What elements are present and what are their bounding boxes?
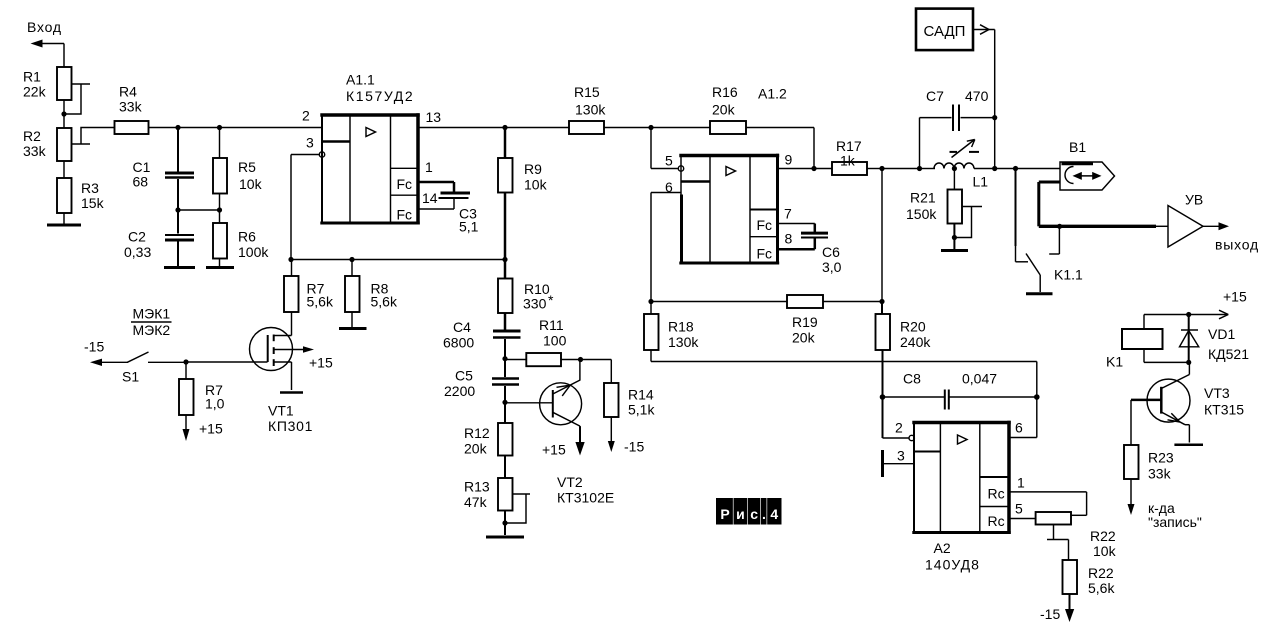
svg-text:20k: 20k — [792, 330, 816, 346]
wire pin 13 output line — [418, 127, 569, 129]
pin 2 label — [302, 108, 310, 124]
pin 7 wire to C6 — [778, 206, 815, 234]
svg-text:+15: +15 — [542, 442, 566, 458]
ground under VT1 — [280, 391, 303, 394]
transistor VT1 КП301 — [250, 312, 315, 434]
pin 13 label — [426, 109, 442, 125]
pin 9 output wire — [778, 152, 833, 172]
wire R16 down to pin 9 line — [813, 128, 815, 169]
resistor R11 — [526, 317, 580, 366]
svg-text:R13: R13 — [464, 479, 490, 495]
svg-text:-15: -15 — [84, 339, 104, 355]
node B1 line junction — [1013, 166, 1018, 171]
svg-text:13: 13 — [426, 109, 442, 125]
svg-text:33k: 33k — [23, 143, 47, 159]
relay K1 coil — [1106, 315, 1189, 370]
svg-text:68: 68 — [133, 174, 149, 190]
svg-text:C7: C7 — [926, 88, 944, 104]
op-amp A1.1 К157УД2 — [320, 72, 419, 225]
svg-text:КТ315: КТ315 — [1204, 402, 1244, 418]
node R11-emitter junction — [578, 357, 611, 362]
transistor VT3 КТ315 — [1131, 362, 1244, 442]
svg-text:"запись": "запись" — [1148, 514, 1202, 530]
svg-text:3,0: 3,0 — [822, 259, 842, 275]
svg-text:МЭК1: МЭК1 — [133, 306, 171, 322]
resistor R22 10k trimmer — [1036, 512, 1117, 560]
svg-text:+15: +15 — [1223, 289, 1247, 305]
resistor R10 330* — [498, 260, 554, 330]
svg-text:150k: 150k — [906, 206, 937, 222]
node C1-C2 junction — [175, 207, 222, 212]
node R5 top junction — [217, 125, 222, 130]
pin 2 input circle — [895, 420, 914, 441]
svg-text:-15: -15 — [1040, 606, 1060, 622]
svg-text:R5: R5 — [238, 159, 256, 175]
svg-text:VT3: VT3 — [1204, 385, 1230, 401]
resistor R22 5,6k — [1063, 560, 1116, 622]
svg-text:.: . — [762, 506, 766, 522]
svg-text:0,33: 0,33 — [124, 244, 151, 260]
resistor R13 trimmer — [464, 478, 530, 535]
wire R2 wiper tap to R4 line — [72, 128, 115, 145]
pin 1 wire to C3 — [418, 159, 454, 192]
resistor R21 trimmer — [906, 169, 982, 250]
svg-text:2: 2 — [895, 420, 903, 436]
wire feedback bus A1.2 — [648, 299, 884, 304]
svg-text:R22: R22 — [1088, 565, 1114, 581]
wire R18 bottom long line to A2 pin6 — [651, 361, 1037, 363]
pin 8 wire from C6 — [778, 231, 815, 250]
ground under R13 — [486, 536, 524, 539]
node S1-R7 junction — [183, 359, 267, 364]
pin 3 wire with common bar — [883, 448, 915, 478]
svg-text:Fс: Fс — [397, 207, 413, 223]
resistor R17 — [832, 138, 882, 175]
svg-text:VT1: VT1 — [268, 403, 294, 419]
svg-text:Р: Р — [720, 506, 729, 522]
node VD1-K1-VT3 junction — [1186, 360, 1191, 365]
node C8 right junction — [1034, 394, 1040, 400]
wire VT2 collector to +15 arrow — [542, 426, 585, 457]
svg-text:22k: 22k — [23, 84, 47, 100]
tape head B1 — [1060, 139, 1115, 190]
svg-text:5,6k: 5,6k — [307, 294, 334, 310]
ground under C2 — [164, 266, 195, 269]
svg-text:K1.1: K1.1 — [1054, 267, 1083, 283]
wire R17 node down to bus — [881, 169, 883, 302]
svg-text:9: 9 — [785, 152, 793, 168]
node C4-R11 junction — [502, 356, 526, 361]
svg-text:R21: R21 — [910, 190, 936, 206]
block САДП — [916, 9, 973, 51]
svg-text:R11: R11 — [539, 317, 564, 333]
svg-text:10k: 10k — [239, 176, 263, 192]
svg-text:K1: K1 — [1106, 354, 1123, 370]
svg-text:R3: R3 — [81, 180, 99, 196]
svg-text:5: 5 — [665, 153, 673, 169]
svg-text:4: 4 — [770, 506, 778, 522]
svg-text:КД521: КД521 — [1208, 346, 1249, 362]
svg-text:Fс: Fс — [757, 246, 773, 262]
svg-text:КП301: КП301 — [268, 418, 313, 434]
svg-text:7: 7 — [784, 206, 792, 222]
svg-text:130k: 130k — [668, 334, 699, 350]
wire feedback bus A1.1 — [288, 257, 507, 262]
svg-text:6: 6 — [1015, 420, 1023, 436]
svg-text:C2: C2 — [128, 229, 146, 245]
svg-text:R18: R18 — [668, 319, 694, 335]
wire pin3 down to feedback bus — [290, 155, 292, 260]
svg-text:К157УД2: К157УД2 — [346, 88, 414, 104]
resistor R23 — [1124, 400, 1174, 515]
svg-text:470: 470 — [965, 88, 989, 104]
diode VD1 КД521 — [1180, 315, 1250, 363]
node МЭК1/МЭК2 label — [131, 306, 172, 339]
node -15 under R22 — [1040, 606, 1060, 622]
svg-text:Rс: Rс — [988, 486, 1005, 502]
pin 1 wire — [1009, 475, 1087, 516]
wire B1 lower terminal thick — [1039, 182, 1168, 226]
resistor R15 — [569, 84, 651, 134]
svg-text:1,0: 1,0 — [205, 396, 225, 412]
svg-text:A1.1: A1.1 — [346, 72, 375, 88]
svg-text:выход: выход — [1215, 237, 1259, 253]
node R21 bottom junction — [952, 235, 957, 240]
resistor R12 — [464, 402, 513, 478]
wire input arrow — [31, 40, 65, 68]
wire line down to pin 6 — [1009, 362, 1037, 438]
resistor R8 5,6k — [345, 260, 398, 328]
node R13 bottom junction — [502, 520, 507, 525]
Рис.4 figure label — [716, 498, 782, 525]
pin 6 label — [1015, 420, 1023, 436]
node C7 left junction — [917, 166, 935, 171]
node C5-R12-base junction — [502, 400, 552, 405]
op-amp A1.2 — [679, 86, 787, 265]
svg-text:Fс: Fс — [397, 176, 413, 192]
svg-text:R16: R16 — [712, 84, 738, 100]
node R9 top junction — [502, 125, 507, 130]
svg-text:C4: C4 — [453, 319, 471, 335]
resistor R6 — [213, 210, 269, 266]
svg-text:C8: C8 — [903, 371, 921, 387]
wire САДП output arrow — [973, 25, 995, 169]
svg-text:33k: 33k — [1148, 466, 1172, 482]
pin 5 wire — [1009, 501, 1036, 519]
svg-text:R9: R9 — [524, 161, 542, 177]
svg-text:240k: 240k — [900, 334, 931, 350]
svg-text:МЭК2: МЭК2 — [133, 322, 171, 338]
node -15 under R14 — [624, 439, 644, 455]
svg-text:330: 330 — [523, 296, 547, 312]
svg-text:6800: 6800 — [443, 335, 474, 351]
resistor R14 — [604, 360, 655, 453]
node R17 output junction — [879, 166, 919, 171]
svg-text:R6: R6 — [238, 229, 256, 245]
wire junction down to pin 5 — [651, 128, 678, 169]
op-amp A2 140УД8 — [912, 421, 1010, 573]
resistor R16 — [651, 84, 814, 134]
ground under VT3 — [1174, 444, 1203, 447]
svg-text:3: 3 — [897, 448, 905, 464]
capacitor C8 — [883, 371, 1037, 410]
pin 6 wire to feedback bus — [651, 179, 681, 302]
svg-text:8: 8 — [785, 231, 793, 247]
svg-text:100: 100 — [543, 333, 567, 349]
svg-text:КТ3102Е: КТ3102Е — [557, 490, 614, 506]
svg-text:1: 1 — [425, 159, 433, 175]
svg-text:C6: C6 — [822, 244, 840, 260]
svg-text:R19: R19 — [792, 314, 818, 330]
svg-text:3: 3 — [306, 135, 314, 151]
svg-text:Fс: Fс — [757, 217, 773, 233]
transistor VT2 КТ3102Е — [540, 360, 615, 506]
svg-text:5,1: 5,1 — [459, 219, 479, 235]
svg-text:+15: +15 — [309, 355, 333, 371]
svg-text:2: 2 — [302, 108, 310, 124]
svg-text:10k: 10k — [1093, 543, 1117, 559]
svg-text:R14: R14 — [628, 387, 654, 403]
amplifier УВ — [1168, 192, 1203, 248]
svg-text:R1: R1 — [23, 69, 41, 85]
svg-text:20k: 20k — [712, 102, 736, 118]
resistor R4 — [115, 84, 149, 135]
capacitor C5 — [444, 359, 519, 403]
ground under R3 — [47, 224, 81, 227]
resistor R19 — [787, 295, 823, 346]
wire R20 bottom to pin 2 — [883, 397, 910, 438]
svg-text:*: * — [548, 292, 554, 308]
svg-text:2200: 2200 — [444, 383, 475, 399]
node C8 left junction — [880, 394, 886, 400]
capacitor C1 — [133, 128, 195, 211]
svg-text:1: 1 — [1017, 475, 1025, 491]
resistor R1 — [23, 67, 72, 114]
node +15 at VT1 substrate — [309, 355, 333, 371]
svg-text:47k: 47k — [464, 494, 488, 510]
node thick line junction — [1057, 224, 1062, 229]
pin 3 input circle — [291, 135, 325, 158]
resistor R20 — [876, 302, 932, 398]
inductor L1 variable — [934, 140, 988, 190]
ground under K1.1 — [1026, 292, 1053, 295]
resistor R5 — [213, 128, 263, 211]
svg-text:5,6k: 5,6k — [371, 294, 398, 310]
svg-text:R4: R4 — [119, 84, 137, 100]
capacitor C6 — [801, 233, 842, 275]
svg-text:VT2: VT2 — [557, 474, 583, 490]
svg-text:15k: 15k — [81, 195, 105, 211]
svg-text:Вход: Вход — [27, 19, 62, 35]
svg-text:5,6k: 5,6k — [1088, 580, 1115, 596]
svg-text:5: 5 — [1015, 501, 1023, 517]
node R15-R16 junction — [648, 125, 653, 130]
svg-text:УВ: УВ — [1185, 192, 1203, 208]
svg-text:B1: B1 — [1069, 139, 1086, 155]
node Вход (input) — [27, 19, 62, 35]
svg-text:R2: R2 — [23, 128, 41, 144]
svg-text:L1: L1 — [973, 174, 989, 190]
resistor R18 — [644, 302, 699, 362]
svg-text:+15: +15 — [199, 421, 223, 437]
svg-text:C5: C5 — [455, 368, 473, 384]
svg-text:-15: -15 — [624, 439, 644, 455]
svg-text:100k: 100k — [238, 244, 269, 260]
svg-text:140УД8: 140УД8 — [925, 557, 980, 573]
node +15 relay rail — [1223, 289, 1247, 305]
ground under R8 — [339, 327, 367, 330]
resistor R7 5,6k — [284, 260, 334, 313]
resistor R3 — [57, 161, 105, 224]
svg-text:130k: 130k — [575, 102, 606, 118]
svg-text:R22: R22 — [1090, 528, 1116, 544]
svg-text:S1: S1 — [122, 369, 139, 385]
svg-text:и: и — [736, 506, 745, 522]
svg-text:САДП: САДП — [924, 23, 966, 40]
svg-text:R15: R15 — [574, 84, 600, 100]
svg-text:R20: R20 — [900, 319, 926, 335]
wire R1 wiper tap — [66, 84, 90, 114]
switch S1 — [122, 352, 186, 385]
svg-text:Rс: Rс — [988, 513, 1005, 529]
svg-text:10k: 10k — [524, 177, 548, 193]
node L1-R21 junction — [952, 166, 957, 171]
node C1 top junction — [175, 125, 180, 130]
resistor R7 1,0 — [179, 362, 225, 415]
wire -15 arrow — [90, 359, 128, 366]
svg-text:33k: 33k — [119, 99, 143, 115]
switch K1.1 — [1016, 169, 1084, 293]
capacitor C3 — [439, 193, 479, 235]
wire УВ output arrow — [1203, 222, 1259, 252]
capacitor C7 — [920, 88, 995, 169]
pin 14 wire from C3 — [418, 190, 454, 209]
node -15 label at S1 — [84, 339, 104, 355]
svg-text:A2: A2 — [934, 540, 951, 556]
resistor R2 — [23, 114, 72, 161]
svg-text:20k: 20k — [464, 441, 488, 457]
svg-text:R12: R12 — [464, 425, 490, 441]
svg-text:R23: R23 — [1148, 450, 1174, 466]
wire R4 to op-amp pin 2 — [149, 127, 323, 129]
svg-text:A1.2: A1.2 — [758, 86, 787, 102]
svg-text:0,047: 0,047 — [962, 371, 997, 387]
capacitor C2 — [124, 210, 194, 266]
svg-text:5,1k: 5,1k — [628, 402, 655, 418]
pin 5 input circle — [665, 153, 684, 172]
wire R7 to +15 arrow — [183, 415, 223, 441]
node САДП line junction — [974, 166, 1060, 171]
svg-text:1k: 1k — [840, 153, 856, 169]
svg-text:6: 6 — [665, 179, 673, 195]
svg-text:с: с — [750, 506, 758, 522]
ground under R21 — [941, 249, 968, 252]
node C7 right junction — [992, 115, 997, 120]
wire +15 rail arrow — [1144, 310, 1228, 319]
node к-да запись — [1148, 500, 1202, 530]
capacitor C4 — [443, 319, 521, 359]
svg-text:VD1: VD1 — [1208, 326, 1235, 342]
svg-text:14: 14 — [422, 190, 438, 206]
resistor R9 — [498, 128, 548, 260]
node R1-R2 junction — [61, 111, 66, 116]
ground under R6 — [206, 266, 234, 269]
